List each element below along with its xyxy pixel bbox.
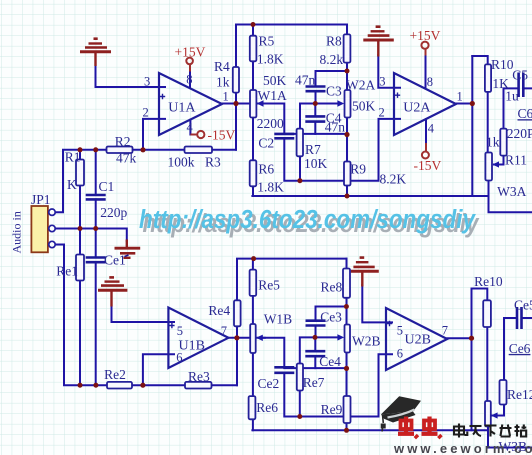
svg-text:+15V: +15V xyxy=(175,45,206,60)
wire: Ce3 branch from Re8 bottom node xyxy=(316,307,347,338)
svg-text:+15V: +15V xyxy=(410,28,441,43)
svg-text:Ce4: Ce4 xyxy=(319,354,341,369)
svg-text:1u: 1u xyxy=(505,89,519,104)
svg-text:1.8K: 1.8K xyxy=(257,180,284,195)
potentiometer W2A xyxy=(337,90,350,118)
wire: JP1 pin2 to ground G5 xyxy=(52,229,127,242)
svg-text:R4: R4 xyxy=(214,59,230,74)
wire: top corner to R10 xyxy=(472,56,487,64)
op-amp U1B xyxy=(168,308,228,369)
svg-text:C1: C1 xyxy=(99,179,115,194)
svg-text:W2A: W2A xyxy=(346,78,375,93)
wire: U1A pin3 input from ground G1 xyxy=(96,65,166,88)
logo chongchong characters xyxy=(398,417,442,439)
ground G5 below JP1 pin2 wire xyxy=(115,240,141,258)
svg-text:Re1: Re1 xyxy=(56,264,78,279)
svg-text:R11: R11 xyxy=(505,153,527,168)
svg-text:Re10: Re10 xyxy=(474,274,503,289)
resistor Re2 xyxy=(107,382,132,389)
potentiometer W1A xyxy=(250,90,266,118)
svg-text:8: 8 xyxy=(427,75,433,89)
wire: W3B bottom going down and off right edge xyxy=(488,427,532,448)
capacitor C4 xyxy=(305,116,325,121)
resistor Re1 xyxy=(76,255,84,281)
svg-text:6: 6 xyxy=(176,350,182,364)
svg-text:W3A: W3A xyxy=(497,184,526,199)
svg-text:R1: R1 xyxy=(65,149,81,164)
svg-text:7: 7 xyxy=(442,324,448,338)
capacitor C1 xyxy=(86,195,106,199)
svg-text:K: K xyxy=(67,177,77,192)
svg-text:7: 7 xyxy=(221,324,227,338)
svg-text:Re12: Re12 xyxy=(507,387,532,402)
wire: U1B pin6 to Re2 rail xyxy=(143,354,174,385)
resistor R8 xyxy=(344,34,351,62)
svg-text:R5: R5 xyxy=(259,33,275,48)
pin number labels xyxy=(143,73,463,365)
potentiometer W3B xyxy=(485,401,498,427)
power +15V U2A xyxy=(421,42,428,89)
wire: C1/Ce1 column xyxy=(95,150,97,385)
svg-text:1: 1 xyxy=(223,89,229,103)
svg-text:1: 1 xyxy=(457,90,463,104)
svg-text:C6: C6 xyxy=(518,106,532,121)
op-amp U2B xyxy=(386,308,447,370)
wire: U2B pin5 from ground G4 xyxy=(362,285,392,322)
resistor Re10 xyxy=(483,300,491,327)
capacitor Ce2 xyxy=(274,367,294,373)
wire: Ce4 stems xyxy=(314,337,316,368)
svg-text:Re6: Re6 xyxy=(256,400,278,415)
svg-text:47n: 47n xyxy=(325,120,346,135)
wire: Re8/W2B/Re9 column xyxy=(346,259,348,431)
svg-text:6: 6 xyxy=(397,347,403,361)
svg-text:3: 3 xyxy=(144,75,150,89)
svg-text:R7: R7 xyxy=(305,142,321,157)
svg-text:50K: 50K xyxy=(263,73,287,88)
svg-text:R8: R8 xyxy=(326,33,342,48)
svg-text:Re4: Re4 xyxy=(208,303,230,318)
wire: corner to Re10 xyxy=(472,289,488,301)
wire: R7 bottom stem xyxy=(299,156,301,180)
resistor R7 xyxy=(297,129,303,157)
wire: W3A bottom going down and off right edge xyxy=(489,181,532,213)
wire: bottom rail of top half (R6,R9,feedback,W3A) xyxy=(252,195,488,197)
watermark URL xyxy=(139,206,480,238)
svg-text:220p: 220p xyxy=(100,205,127,220)
svg-text:-15V: -15V xyxy=(208,128,236,143)
svg-text:Re3: Re3 xyxy=(188,369,210,384)
logo graduation cap xyxy=(381,396,421,431)
svg-text:4: 4 xyxy=(187,120,194,134)
power -15V U2A xyxy=(422,119,429,158)
svg-text:W1B: W1B xyxy=(264,312,293,327)
capacitor Ce1 xyxy=(86,255,129,262)
wire: U1A pin2 to R2/R3 node xyxy=(143,119,165,150)
resistor R1 xyxy=(76,160,84,186)
svg-text:JP1: JP1 xyxy=(31,192,51,207)
svg-text:Re9: Re9 xyxy=(321,402,343,417)
ground G3 top-middle above U2A xyxy=(363,27,394,57)
wire: U2B output node and feedback column xyxy=(447,289,471,431)
capacitor Ce3 xyxy=(306,321,326,326)
wire: R2 rail from JP1 pin1 xyxy=(52,150,236,212)
svg-text:1k: 1k xyxy=(216,75,230,90)
svg-text:Re7: Re7 xyxy=(303,375,325,390)
svg-text:Ce6: Ce6 xyxy=(509,341,531,356)
svg-text:8.2k: 8.2k xyxy=(320,52,344,67)
svg-text:220P: 220P xyxy=(507,126,532,141)
wire: C5 left link and C6 chain xyxy=(504,88,532,128)
resistor R2 xyxy=(107,147,133,154)
wire: Ce2-top / Ce4-bottom / W2B-bottom link xyxy=(284,367,346,369)
svg-text:C5: C5 xyxy=(512,68,528,83)
potentiometer W1B xyxy=(250,324,265,353)
svg-text:R10: R10 xyxy=(491,57,514,72)
svg-text:http://asp3.6to23.com/songsdiy: http://asp3.6to23.com/songsdiy xyxy=(139,206,477,234)
svg-text:R9: R9 xyxy=(350,162,366,177)
op-amp U1A xyxy=(159,73,222,135)
resistor R9 xyxy=(344,162,351,186)
ground G2 mid-left above U1B xyxy=(98,277,127,306)
wire: R7 top to W2A wiper node xyxy=(300,104,337,129)
svg-text:W2B: W2B xyxy=(352,334,381,349)
resistor R5 xyxy=(250,36,257,62)
power net labels xyxy=(175,28,442,173)
svg-text:Ce5: Ce5 xyxy=(514,297,532,312)
capacitor C3 xyxy=(306,87,326,92)
svg-text:U2B: U2B xyxy=(405,332,431,347)
wire: Re11 bottom to W3B wiper xyxy=(493,405,505,416)
wire: R10 bottom to W3A xyxy=(487,92,489,153)
resistor Re11 xyxy=(500,380,507,405)
svg-text:1.8K: 1.8K xyxy=(257,52,284,67)
capacitor C2 xyxy=(274,134,294,138)
wire: Re2 rail from JP1 pin3 xyxy=(52,245,237,386)
svg-text:Re8: Re8 xyxy=(321,280,343,295)
wire: C2 bottom to mid rail and U2A pin2 xyxy=(284,119,400,181)
wire: R8/W2A/R9 column xyxy=(346,25,348,197)
logo site name xyxy=(454,424,526,438)
connector JP1 xyxy=(31,206,55,252)
wire: C6 bottom to W3A wiper xyxy=(494,156,504,165)
op-amp U2A xyxy=(394,73,456,135)
resistor Re9 xyxy=(344,396,351,423)
svg-text:3: 3 xyxy=(379,75,385,89)
svg-text:Audio in: Audio in xyxy=(10,211,24,253)
svg-text:R6: R6 xyxy=(258,162,274,177)
svg-text:U2A: U2A xyxy=(403,101,431,116)
capacitor C6 body xyxy=(500,129,506,156)
wire: Ce2 bottom to mid rail and U2B pin6 xyxy=(284,354,392,416)
svg-text:Ce1: Ce1 xyxy=(104,253,126,268)
svg-text:100k: 100k xyxy=(168,155,195,170)
svg-text:8.2K: 8.2K xyxy=(380,171,407,186)
svg-text:Re2: Re2 xyxy=(104,367,126,382)
resistor R4 xyxy=(233,67,239,93)
potentiometer W2B xyxy=(337,325,350,353)
resistor Re7 xyxy=(297,364,303,391)
svg-text:2: 2 xyxy=(379,105,385,119)
wire: Re7 bottom stem xyxy=(299,391,301,417)
svg-text:C3: C3 xyxy=(326,83,342,98)
svg-text:Re5: Re5 xyxy=(258,278,280,293)
svg-text:5: 5 xyxy=(177,324,183,338)
svg-text:2200: 2200 xyxy=(257,116,284,131)
resistor R6 xyxy=(250,160,257,186)
svg-text:U1A: U1A xyxy=(168,101,196,116)
wire: Re3 right to Re4 column and bottom-block top rail xyxy=(237,259,347,386)
wire: Re10 bottom to W3B xyxy=(486,327,488,401)
resistor Re3 xyxy=(185,382,212,389)
wire: U2A output node and feedback column xyxy=(456,56,472,196)
wire: C3 branch from R8 bottom node xyxy=(316,71,348,104)
wire: bottom rail of bottom half xyxy=(252,429,488,431)
power -15V U1A xyxy=(190,120,204,138)
svg-text:R2: R2 xyxy=(115,134,131,149)
ground G4 above U2B xyxy=(351,258,379,287)
capacitor C5 xyxy=(519,73,524,98)
wire: Ce5 left link and Re11 chain xyxy=(504,318,532,380)
svg-text:R3: R3 xyxy=(205,155,221,170)
resistor R10 xyxy=(485,64,491,92)
svg-text:10K: 10K xyxy=(304,156,328,171)
resistor Re4 xyxy=(234,300,241,326)
potentiometer W3A xyxy=(485,153,499,181)
svg-text:W1A: W1A xyxy=(258,88,287,103)
wire: Re5/W1B/Re6 column xyxy=(252,259,254,431)
labels bottom half xyxy=(10,192,532,454)
resistor R3 xyxy=(185,147,213,154)
capacitor Ce4 xyxy=(305,351,325,356)
svg-text:www.eeworm.com: www.eeworm.com xyxy=(393,441,532,455)
wire: C2-top / C4-bottom / W2A-bottom link xyxy=(284,133,347,135)
svg-text:50K: 50K xyxy=(352,99,376,114)
wire: U1B output through W1B wiper to Ce2 xyxy=(228,338,284,368)
wire: U1B pin5 from ground G2 xyxy=(112,305,175,322)
power +15V U1A xyxy=(186,58,193,88)
svg-text:47k: 47k xyxy=(116,151,137,166)
capacitor Ce5 xyxy=(517,307,522,329)
wire: R1/Re1 column xyxy=(79,150,81,385)
wire: C4 stems xyxy=(314,104,316,134)
svg-text:47n: 47n xyxy=(295,72,316,87)
svg-text:C2: C2 xyxy=(258,136,274,151)
wire: U1A output through W1A wiper to C2 xyxy=(222,104,284,134)
ground G1 top-left xyxy=(80,39,111,66)
resistor Re5 xyxy=(250,270,257,296)
svg-text:Ce3: Ce3 xyxy=(320,310,342,325)
wire: R5/W1A/R6 column xyxy=(252,25,254,197)
wire: Re7 top to W2B wiper node xyxy=(300,337,337,363)
labels top half xyxy=(65,33,532,220)
wire: U2A pin3 from ground G3 xyxy=(378,55,400,88)
svg-text:Ce2: Ce2 xyxy=(258,376,280,391)
resistor Re8 xyxy=(343,269,350,298)
svg-text:5: 5 xyxy=(397,324,403,338)
svg-text:4: 4 xyxy=(428,121,435,135)
svg-text:-15V: -15V xyxy=(414,158,442,173)
svg-text:8: 8 xyxy=(186,73,192,87)
resistor Re6 xyxy=(249,396,256,419)
svg-text:1k: 1k xyxy=(486,134,500,149)
wire: R3 right to U1A output column and top rail xyxy=(236,25,347,150)
svg-text:2: 2 xyxy=(143,106,149,120)
